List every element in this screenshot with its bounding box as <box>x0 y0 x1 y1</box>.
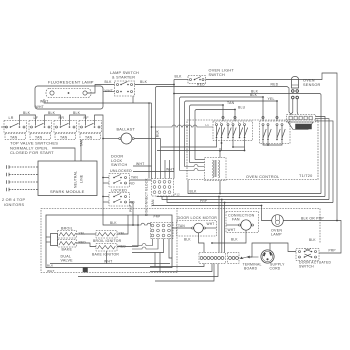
svg-text:OVEN: OVEN <box>303 79 315 83</box>
wire YEL bus <box>185 101 278 167</box>
svg-text:TAN: TAN <box>227 101 235 105</box>
svg-text:SWITCH: SWITCH <box>111 163 127 167</box>
wire long run 3 <box>162 196 329 200</box>
svg-text:WHT: WHT <box>104 259 112 263</box>
svg-text:BLK: BLK <box>250 93 258 97</box>
wire WHT lower to bus <box>133 171 174 173</box>
wire neutral bus 1 <box>148 103 150 179</box>
wire valve input stub <box>1 126 7 128</box>
wire bottom run 2 <box>150 264 212 272</box>
svg-text:WHT: WHT <box>47 269 55 273</box>
svg-text:OVEN CONTROL: OVEN CONTROL <box>246 175 279 179</box>
wire valve stubs <box>46 236 51 238</box>
door lock motor box <box>177 221 217 237</box>
svg-text:BLK: BLK <box>309 238 316 242</box>
wire lower block down 2 <box>159 253 161 272</box>
svg-text:DOOR LOCK MOTOR: DOOR LOCK MOTOR <box>178 216 218 220</box>
wire bottom run 3 <box>78 264 218 277</box>
relay contacts K1 <box>216 124 218 126</box>
wire door lock TAN out <box>130 179 152 181</box>
oven control enclosure <box>187 120 318 180</box>
svg-text:BOARD: BOARD <box>244 266 258 270</box>
wire ballast left <box>103 138 119 140</box>
svg-text:BLK: BLK <box>184 238 191 242</box>
svg-text:PRP: PRP <box>129 205 133 212</box>
wire BLK bus upper <box>173 80 175 179</box>
oven lamp <box>272 215 284 227</box>
top ignitor leads <box>6 165 8 169</box>
wire lower block out 2 <box>132 239 158 250</box>
wire WHT to bus <box>133 165 152 167</box>
valve switch LF TAN strip <box>30 134 51 140</box>
wire broil ignitor out <box>117 215 128 234</box>
bake ignitor coil <box>96 244 117 252</box>
wire ballast right <box>134 138 160 140</box>
oven light switch S2 box <box>188 76 206 84</box>
wire connector fanout 3 <box>316 121 334 203</box>
wire BLU bus <box>195 110 235 160</box>
wire door switch left <box>249 243 297 257</box>
wire motor right <box>206 227 217 229</box>
svg-text:WHT: WHT <box>228 228 236 232</box>
svg-text:NO: NO <box>130 201 136 205</box>
svg-text:LAMP: LAMP <box>271 232 282 236</box>
sensor connector P1 <box>287 115 316 123</box>
label WHT splice <box>83 268 88 273</box>
wire bottom run 4 <box>155 264 214 282</box>
svg-text:NEUTRAL: NEUTRAL <box>74 171 78 188</box>
wire oven lamp left <box>262 206 272 221</box>
svg-text:BALLAST: BALLAST <box>117 127 136 131</box>
svg-text:TAN: TAN <box>178 224 185 228</box>
wire oven light switch feed <box>174 79 188 81</box>
relay output wires <box>161 139 217 148</box>
svg-text:CLOSED FOR START: CLOSED FOR START <box>10 150 54 155</box>
connector black label <box>296 124 312 129</box>
svg-text:VALVE: VALVE <box>61 259 74 263</box>
svg-text:WHT: WHT <box>136 162 144 166</box>
svg-text:UNLOCKED: UNLOCKED <box>110 169 132 173</box>
wire bridge BLK 1 <box>20 115 36 126</box>
svg-text:LOCKED: LOCKED <box>111 189 127 193</box>
wire starter left <box>103 91 115 93</box>
broil ignitor coil <box>96 231 117 239</box>
terminal board block 2 <box>228 253 240 264</box>
svg-text:PRP: PRP <box>200 199 207 203</box>
oven sensor plug contacts <box>292 90 295 93</box>
svg-text:OVEN LIGHT: OVEN LIGHT <box>209 68 235 72</box>
lamp switch S1 box <box>115 81 135 96</box>
svg-text:L1: L1 <box>206 123 210 127</box>
svg-text:BLK: BLK <box>190 190 198 194</box>
svg-text:BLK: BLK <box>140 80 148 84</box>
svg-text:BLU: BLU <box>238 105 246 109</box>
wire drop to terminal board 3 <box>224 203 226 253</box>
svg-text:TAN: TAN <box>80 139 84 146</box>
door lock motor M1 <box>194 223 204 233</box>
dual valve body <box>51 234 58 246</box>
oven cavity inner box <box>46 215 172 268</box>
wire hop into lower block <box>138 223 151 225</box>
svg-text:CORD: CORD <box>270 266 281 270</box>
wire long run 4 <box>167 196 333 203</box>
wire bus extra 2 <box>169 160 171 179</box>
svg-text:BLK: BLK <box>23 111 31 115</box>
svg-text:TAN: TAN <box>10 135 18 139</box>
wire valve to bake ignitor <box>77 243 97 247</box>
relay bank K1 box <box>213 121 253 141</box>
convection fan M2 <box>241 220 251 230</box>
wire motor left <box>172 227 192 229</box>
spark module box <box>38 161 97 196</box>
svg-text:BLK: BLK <box>105 80 113 84</box>
svg-text:FAN: FAN <box>232 217 240 221</box>
transformer input wires <box>195 159 205 161</box>
terminal board arrow <box>241 257 249 259</box>
wire bottom run 1 <box>150 264 204 267</box>
fluorescent lamp assembly box <box>35 86 103 109</box>
svg-text:BLK: BLK <box>231 238 238 242</box>
svg-text:BLK: BLK <box>48 111 56 115</box>
wire fan bottom to terminal board <box>212 230 246 243</box>
wire lower block out 3 <box>132 239 164 253</box>
svg-text:BLK: BLK <box>156 129 160 137</box>
wire connector fanout 1 <box>316 117 326 197</box>
wire bridge BLK 3 <box>70 115 86 126</box>
door lock switch locked box <box>109 193 130 207</box>
wire neutral bus 2 <box>151 103 153 179</box>
lower connector block P2 <box>151 223 174 239</box>
wire lower block down 3 <box>169 239 172 259</box>
svg-text:RED: RED <box>197 82 205 86</box>
oven cavity dashed extension <box>177 208 320 210</box>
wire lamp switch output <box>135 84 175 86</box>
svg-text:TAN: TAN <box>60 135 68 139</box>
wire drop to terminal board 1 <box>218 197 220 253</box>
wire bridge BLK 2 <box>45 115 61 126</box>
wire long run 5 <box>152 205 262 207</box>
svg-text:T1/T20: T1/T20 <box>299 174 313 178</box>
bake valve coil <box>58 240 77 248</box>
svg-text:YEL: YEL <box>119 232 126 236</box>
sensor connector shell <box>288 122 313 130</box>
wire lower block out 1 <box>132 239 153 246</box>
wire L1 into relay bank with hops <box>152 125 214 127</box>
wire drop to terminal board 2 <box>221 200 223 253</box>
wire door lock feed stubs <box>103 177 109 179</box>
terminal board block 1 <box>199 253 226 264</box>
wire connector fanout 2 <box>316 119 330 200</box>
svg-text:BLK: BLK <box>175 75 183 79</box>
wire lower block down 1 <box>154 253 156 267</box>
svg-text:FLUORESCENT LAMP: FLUORESCENT LAMP <box>48 80 94 85</box>
wire TAN bus <box>190 105 224 163</box>
svg-text:SENSOR: SENSOR <box>303 83 321 87</box>
wire door lock PRP out <box>130 202 134 225</box>
valve switch LR TAN strip <box>5 134 26 140</box>
relay feed connector circles <box>222 116 224 118</box>
wire neutral into module <box>52 148 75 161</box>
door actuated switch box <box>296 249 319 261</box>
supply cord plug <box>261 250 274 263</box>
svg-text:WHT: WHT <box>207 222 215 226</box>
junction dots on bus <box>222 104 224 106</box>
convection fan box <box>226 212 259 233</box>
svg-text:BROIL: BROIL <box>61 226 73 230</box>
svg-text:WHT: WHT <box>166 168 174 172</box>
wire RF output to node <box>95 115 139 225</box>
svg-text:YEL: YEL <box>79 232 86 236</box>
svg-text:RR: RR <box>59 116 65 120</box>
svg-text:TAN: TAN <box>35 135 43 139</box>
svg-text:& STARTER: & STARTER <box>112 76 135 80</box>
wire WHT bottom <box>50 263 170 265</box>
svg-text:TAN: TAN <box>131 175 138 179</box>
svg-text:YEL: YEL <box>268 97 275 101</box>
relay bank K2 box <box>260 121 291 144</box>
svg-text:P12: P12 <box>175 193 181 197</box>
wire lamp to switch top <box>87 85 115 94</box>
svg-text:WHT: WHT <box>36 105 44 109</box>
svg-text:BROIL IGNITOR: BROIL IGNITOR <box>93 239 122 243</box>
svg-text:LF: LF <box>34 116 39 120</box>
wire oven lamp right BLK OR PRP <box>283 221 341 254</box>
svg-text:SWITCH: SWITCH <box>209 73 225 77</box>
starter contacts <box>117 91 119 93</box>
svg-text:LAMP SWITCH: LAMP SWITCH <box>110 71 139 75</box>
ballast <box>121 133 132 144</box>
wire long run 2 <box>157 195 325 198</box>
wire line into module TAN <box>80 140 82 161</box>
wire long run 1 <box>188 180 321 194</box>
svg-text:RED: RED <box>79 241 87 245</box>
wire bus from ballast <box>160 139 162 179</box>
svg-text:IGNITORS: IGNITORS <box>4 203 25 207</box>
relay contacts K2 <box>262 124 264 126</box>
relay K2 output wires <box>263 141 282 146</box>
svg-text:BAKE: BAKE <box>62 247 73 251</box>
wire valve to broil ignitor <box>77 233 97 235</box>
supply cord arrow <box>249 256 259 258</box>
fluorescent lamp tube <box>46 89 91 98</box>
wire lamp bottom return <box>44 99 152 103</box>
oven cavity outer dashed box <box>41 209 177 273</box>
svg-text:RED: RED <box>271 82 279 86</box>
oven sensor bulb <box>292 77 299 89</box>
svg-text:RF: RF <box>84 116 90 120</box>
disconnect block connector <box>152 179 174 197</box>
transformer T1 box <box>205 158 227 181</box>
lamp switch contacts <box>117 84 119 86</box>
svg-text:SPARK MODULE: SPARK MODULE <box>50 189 85 194</box>
wire RED bus <box>156 87 292 179</box>
svg-text:2 OR 4 TOP: 2 OR 4 TOP <box>2 198 25 202</box>
wire bake ignitor out <box>117 215 138 247</box>
valve switch RR TAN strip <box>55 134 76 140</box>
svg-text:BLK OR PRP: BLK OR PRP <box>301 216 324 220</box>
svg-text:LINE: LINE <box>80 174 84 183</box>
svg-text:TAN: TAN <box>85 135 93 139</box>
svg-text:SWITCH: SWITCH <box>299 265 314 269</box>
svg-text:BLK: BLK <box>73 111 81 115</box>
wire fan left <box>226 224 239 226</box>
svg-text:NO: NO <box>130 182 136 186</box>
wire bus extra 1 <box>164 160 166 179</box>
wire motor to terminal board <box>199 233 205 253</box>
svg-text:BAKE IGNITOR: BAKE IGNITOR <box>92 252 119 256</box>
broil valve coil <box>58 231 77 239</box>
svg-text:BLK: BLK <box>110 221 117 225</box>
svg-text:PRP: PRP <box>329 249 336 253</box>
wire oven light switch to right edge <box>206 73 338 221</box>
wire BLK bus lower <box>180 97 264 171</box>
door lock switch unlocked box <box>109 174 130 188</box>
svg-text:DISCONNECT BLOCK: DISCONNECT BLOCK <box>145 178 149 216</box>
transformer output wire <box>219 181 221 194</box>
svg-text:LR: LR <box>9 116 14 120</box>
wire sensor leads <box>291 99 293 115</box>
svg-text:BLK: BLK <box>47 263 53 267</box>
transformer windings <box>213 160 214 178</box>
valve switch RF TAN strip <box>80 134 101 140</box>
